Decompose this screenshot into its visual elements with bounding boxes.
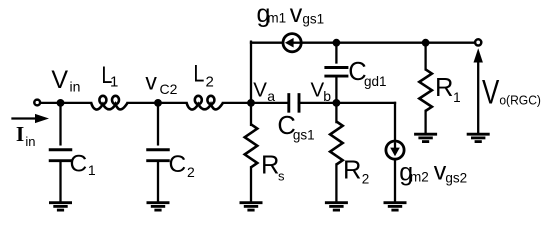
svg-text:C2: C2	[159, 81, 177, 97]
wire Va up to rail	[250, 42, 252, 103]
svg-text:R: R	[261, 151, 279, 179]
svg-text:m2: m2	[410, 170, 429, 185]
ground below Rs	[240, 201, 263, 204]
svg-text:s: s	[278, 169, 285, 184]
svg-text:2: 2	[187, 164, 195, 180]
svg-text:o(RGC): o(RGC)	[499, 93, 541, 108]
Vo arrow pointing up	[474, 48, 483, 62]
wire Va to Rs	[250, 103, 252, 125]
junction on rail above Cgd1	[333, 39, 341, 47]
resistor R1	[419, 69, 432, 111]
svg-text:v: v	[290, 0, 303, 28]
wire C1 to ground	[59, 162, 61, 203]
output terminal	[475, 39, 481, 45]
svg-text:V: V	[253, 79, 267, 102]
svg-text:R: R	[435, 74, 453, 102]
wire Vb to R2	[335, 103, 337, 122]
svg-text:v: v	[145, 69, 157, 95]
inductor L2	[187, 103, 223, 110]
svg-text:V: V	[51, 66, 68, 94]
wire C2 to ground	[157, 162, 159, 203]
node VC2	[154, 99, 162, 107]
wire Va to Cgs1	[251, 102, 289, 104]
svg-text:L: L	[193, 61, 204, 88]
Iin current arrow	[13, 117, 38, 119]
svg-text:gd1: gd1	[364, 74, 387, 89]
ground below R1	[414, 133, 437, 136]
ground below C2	[147, 201, 170, 204]
svg-text:1: 1	[110, 74, 118, 91]
wire rail to R1	[424, 43, 426, 70]
junction on rail above R1	[422, 39, 430, 47]
wire Cgd1 to Vb	[335, 78, 337, 103]
capacitor C2	[146, 148, 170, 151]
svg-text:in: in	[25, 134, 35, 149]
wire Vin to L1	[61, 102, 92, 104]
svg-text:gs1: gs1	[302, 12, 324, 27]
wire L1 to node VC2	[128, 102, 159, 104]
svg-text:2: 2	[206, 74, 214, 91]
top rail	[251, 42, 478, 44]
svg-text:I: I	[16, 122, 24, 146]
svg-text:C: C	[70, 150, 88, 177]
capacitor Cgs1	[287, 93, 290, 113]
wire input terminal to Vin node	[41, 102, 61, 104]
svg-text:a: a	[267, 88, 275, 104]
wire rail to Cgd1	[335, 43, 337, 63]
svg-text:1: 1	[453, 90, 461, 105]
capacitor C1 branch wire	[59, 103, 61, 144]
svg-text:b: b	[323, 88, 331, 104]
svg-text:1: 1	[88, 162, 96, 178]
current source gm1 vgs1	[283, 34, 301, 52]
ground below Vo arrow	[467, 133, 490, 136]
wire Vb to gm2 branch	[336, 102, 395, 104]
capacitor C2 branch wire	[157, 103, 159, 144]
svg-text:gs2: gs2	[445, 171, 467, 186]
node Vb	[333, 99, 341, 107]
svg-text:in: in	[69, 78, 80, 94]
wire gm2 to ground	[394, 159, 396, 203]
node Vin	[57, 99, 65, 107]
svg-text:m1: m1	[267, 11, 286, 26]
wire Cgs1 to node Vb	[299, 102, 336, 104]
svg-text:V: V	[482, 73, 499, 111]
node Va	[247, 99, 255, 107]
capacitor C1	[49, 148, 73, 151]
svg-text:2: 2	[362, 172, 370, 187]
resistor R2	[330, 122, 343, 165]
wire R1 to ground	[424, 111, 426, 134]
inductor L1	[91, 103, 127, 110]
wire R2 to ground	[335, 165, 337, 203]
ground below gm2	[384, 201, 407, 204]
ground below R2	[325, 201, 348, 204]
wire VC2 to L2	[158, 102, 187, 104]
svg-text:gs1: gs1	[293, 128, 315, 143]
input terminal	[34, 100, 40, 106]
svg-text:R: R	[343, 157, 361, 185]
gm1 arrow pointing left	[291, 42, 302, 44]
wire L2 to node Va	[223, 102, 251, 104]
gm2 arrow pointing down	[394, 144, 396, 150]
resistor Rs	[245, 124, 258, 167]
svg-text:C: C	[168, 151, 186, 178]
wire Rs to ground	[250, 167, 252, 202]
capacitor Cgd1	[324, 66, 348, 69]
current source gm2 vgs2	[386, 141, 404, 159]
ground below C1	[49, 201, 72, 204]
